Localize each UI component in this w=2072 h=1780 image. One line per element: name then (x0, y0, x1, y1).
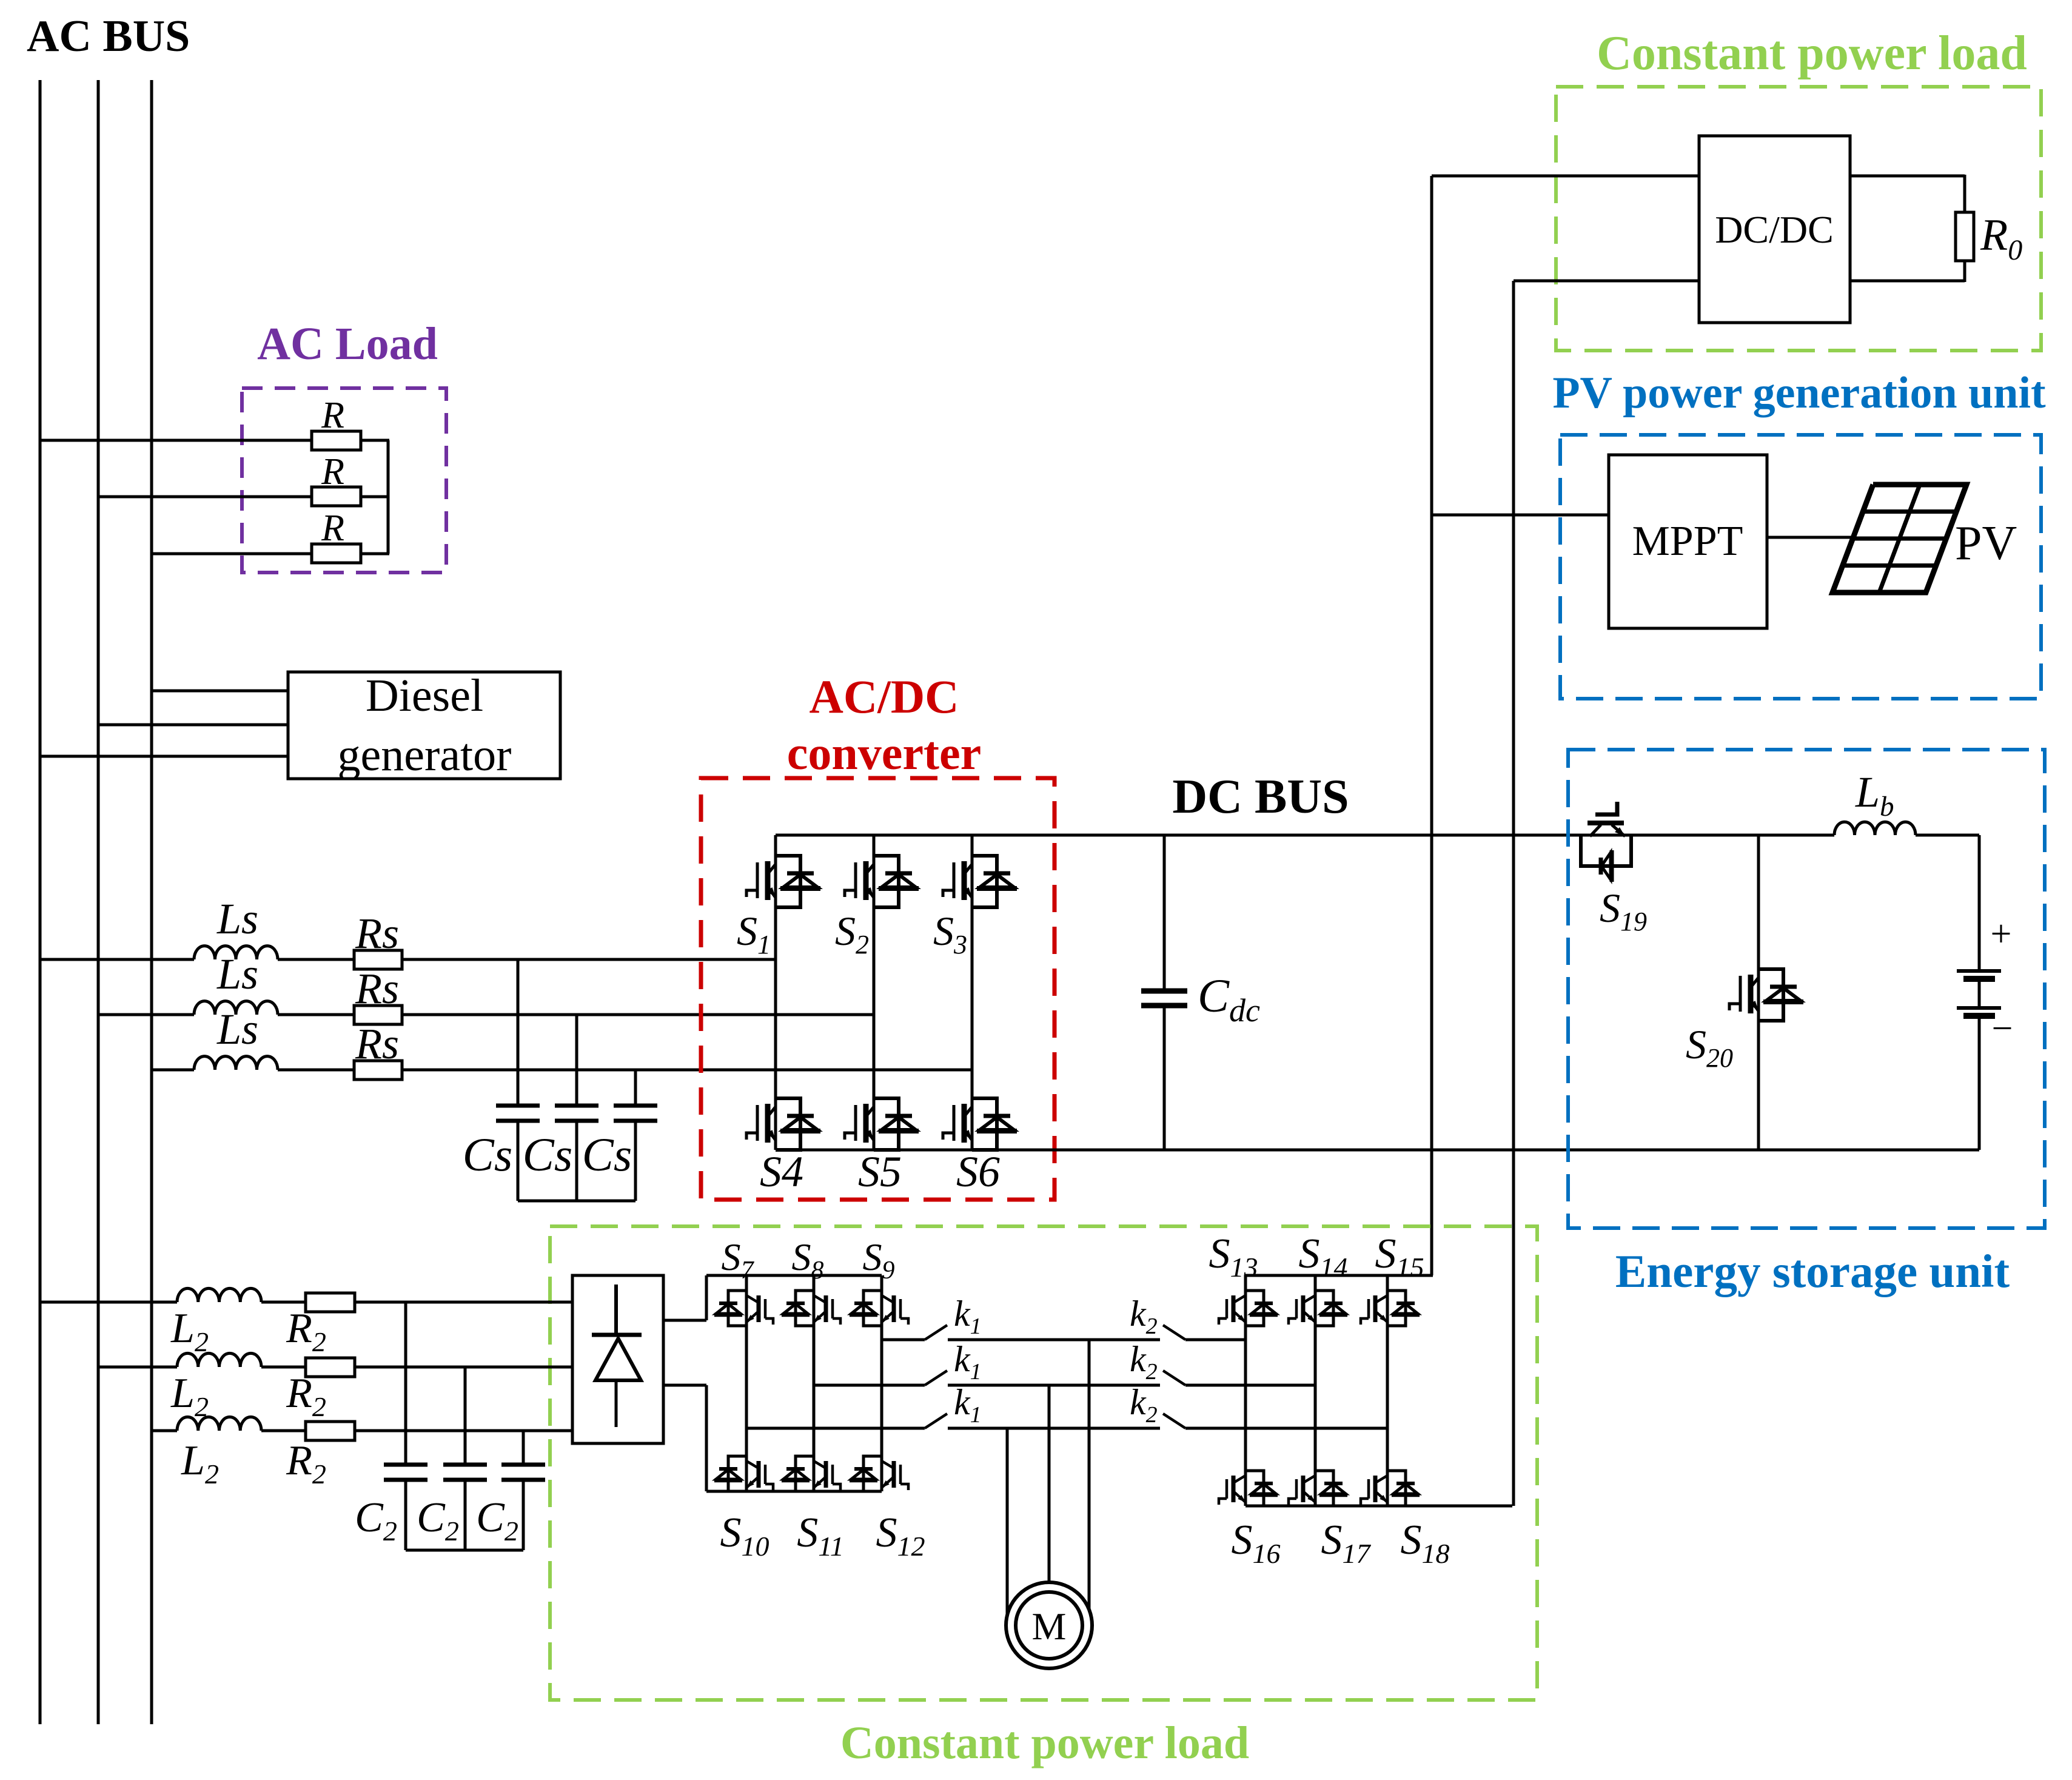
label L2 row2 (170, 1370, 209, 1422)
wire phase row 3 left (152, 1069, 194, 1072)
wire phase row 1 mid (278, 958, 354, 961)
switch k2 blade 3 (1163, 1414, 1185, 1428)
transistor S12 (850, 1456, 908, 1491)
capacitor Cs 3 (614, 1106, 657, 1121)
wire phase row 2 left (98, 1013, 194, 1016)
inductor Lb (1834, 822, 1916, 835)
resistor R2 (row 3) (306, 1422, 355, 1440)
svg-text:AC/DC: AC/DC (810, 670, 959, 723)
wire phase row 3 right (402, 1069, 972, 1072)
label R2 row2 (286, 1370, 326, 1422)
svg-text:PV power generation unit: PV power generation unit (1552, 368, 2046, 418)
label Cdc (1198, 969, 1260, 1029)
svg-text:Rs: Rs (355, 909, 399, 958)
wire AC bus line 1 (39, 80, 42, 1724)
label S10 (720, 1510, 769, 1562)
wire AC load phase 1 right (361, 439, 389, 442)
wire motor phase 3 left (746, 1427, 925, 1430)
transistor S17 (1289, 1471, 1347, 1506)
transistor S1 (746, 856, 820, 907)
transistor S16 (1219, 1471, 1278, 1506)
label k2 row1 (1130, 1294, 1158, 1339)
wire DC bus top rail right (1916, 834, 1979, 837)
label Lb (1855, 768, 1894, 822)
svg-text:converter: converter (787, 727, 981, 779)
inductor L2 (row 2) (177, 1353, 261, 1367)
svg-text:M: M (1032, 1605, 1067, 1648)
wire motor phase 1 left (882, 1338, 925, 1342)
wire Cs bottom 2 (575, 1123, 578, 1201)
wire load row 1 left (40, 1301, 177, 1304)
label AC BUS (27, 12, 190, 61)
label AC/DC (810, 670, 959, 723)
label PV power generation unit (1552, 368, 2046, 418)
battery (1957, 971, 2001, 1016)
wire load row 1 mid (261, 1301, 306, 1304)
wire right inverter leg 3 (1386, 1275, 1389, 1506)
svg-text:generator: generator (338, 730, 512, 781)
label battery + (1991, 913, 2012, 955)
wire C2 bottom 2 (464, 1482, 467, 1550)
wire DC/DC input - (1514, 280, 1699, 283)
svg-text:S6: S6 (956, 1147, 1000, 1196)
svg-text:AC Load: AC Load (257, 318, 438, 369)
wire AC load phase 1 (40, 439, 312, 442)
transistor S15 (1361, 1291, 1420, 1326)
label S2 (835, 908, 869, 959)
label k2 row3 (1130, 1382, 1158, 1428)
inductor Ls (row 1) (194, 895, 278, 959)
wire battery bottom (1978, 1016, 1981, 1150)
resistor R2 (row 2) (306, 1358, 355, 1377)
wire left inverter left vert top (705, 1275, 708, 1320)
label S20 (1686, 1021, 1733, 1073)
transistor S10 (714, 1456, 773, 1491)
wire DC/DC input + (1432, 175, 1699, 178)
wire AC load phase 2 right (361, 495, 389, 499)
transistor S11 (782, 1456, 840, 1491)
wire motor phase 2 right (1185, 1384, 1315, 1387)
label S5 (858, 1147, 902, 1196)
svg-text:Energy storage unit: Energy storage unit (1615, 1245, 2010, 1297)
label S14 (1299, 1231, 1348, 1283)
wire AC load phase 3 right (361, 552, 389, 556)
capacitor C2 1 (384, 1465, 427, 1480)
label S8 (792, 1235, 824, 1285)
label k1 row1 (954, 1294, 982, 1339)
wire motor lead 3 (1006, 1428, 1009, 1615)
svg-text:Rs: Rs (355, 1019, 399, 1068)
label AC Load (257, 318, 438, 369)
transistor S6 (943, 1098, 1017, 1150)
wire Cdc bottom (1163, 1006, 1166, 1150)
Constant power load dashed box (top) (1556, 87, 2041, 351)
wire diesel phase a (152, 690, 288, 693)
wire S20 leg (1757, 835, 1760, 1150)
wire Cs bottom 1 (517, 1123, 520, 1201)
capacitor C2 2 (443, 1465, 487, 1480)
transistor S13 (1219, 1291, 1278, 1326)
wire phase row 1 right (402, 958, 776, 961)
svg-text:Ls: Ls (216, 895, 258, 943)
wire left inverter bottom rail (706, 1490, 882, 1493)
label k1 row2 (954, 1339, 982, 1385)
transistor S5 (845, 1098, 919, 1150)
resistor R0 (1956, 212, 1974, 261)
capacitor Cdc (1141, 991, 1187, 1006)
wire load row 3 left (152, 1429, 177, 1432)
label converter (787, 727, 981, 779)
wire C2 stub 1 (404, 1302, 407, 1463)
wire right inverter leg 2 (1314, 1275, 1317, 1506)
wire Cs stub 1 (517, 959, 520, 1104)
wire AC load phase 3 (152, 552, 312, 556)
svg-text:R: R (321, 395, 344, 436)
switch k1 blade 3 (925, 1414, 947, 1428)
svg-text:Diesel: Diesel (366, 670, 483, 721)
wire phase row 3 mid (278, 1069, 354, 1072)
label Energy storage unit (1615, 1245, 2010, 1297)
wire AC load right vertical (387, 440, 390, 554)
wire diesel phase c (40, 755, 288, 758)
capacitor Cs 1 (496, 1106, 540, 1121)
wire right inverter top rail (1246, 1274, 1433, 1277)
transistor S7 (714, 1291, 773, 1326)
AC Load dashed box (242, 388, 446, 573)
wire R0 top (1963, 175, 1966, 212)
wire battery top (1978, 835, 1981, 971)
svg-text:Ls: Ls (216, 950, 258, 998)
wire DC bus bottom rail (776, 1149, 1979, 1152)
svg-text:Cs: Cs (582, 1128, 632, 1181)
wire load row 1 right (355, 1301, 572, 1304)
wire right inverter bottom rail (1246, 1505, 1512, 1508)
wire motor phase 3 right (1185, 1427, 1387, 1430)
label S1 (737, 908, 771, 959)
transistor S9 (850, 1291, 908, 1326)
wire rectifier out + (663, 1319, 706, 1322)
svg-text:Constant power load: Constant power load (840, 1718, 1249, 1768)
DC/DC converter box (1699, 136, 1850, 323)
resistor R (phase 2) (312, 451, 361, 506)
capacitor C2 3 (501, 1465, 545, 1480)
svg-text:AC BUS: AC BUS (27, 12, 190, 61)
label S3 (933, 908, 967, 959)
wire motor phase 1 mid (948, 1338, 1160, 1342)
svg-text:R: R (321, 508, 344, 549)
transistor S3 (943, 856, 1017, 907)
transistor S18 (1361, 1471, 1420, 1506)
PV panel (1832, 485, 1966, 593)
resistor R (phase 3) (312, 508, 361, 563)
transistor S4 (746, 1098, 820, 1150)
wire DC bus top rail (776, 834, 1834, 837)
wire load row 3 right (355, 1429, 572, 1432)
switch k2 blade 1 (1163, 1325, 1185, 1340)
label R2 row1 (286, 1305, 326, 1357)
wire C2 bottom 1 (404, 1482, 407, 1550)
diode rectifier (572, 1275, 663, 1443)
label S12 (876, 1510, 925, 1562)
label R0 (1980, 210, 2022, 266)
label S18 (1401, 1517, 1450, 1569)
wire MPPT to PV (1767, 536, 1851, 539)
svg-text:−: − (1992, 1008, 2013, 1049)
label Constant power load (top) (1597, 27, 2027, 80)
svg-text:DC BUS: DC BUS (1172, 770, 1349, 824)
wire left inverter leg 2 (813, 1275, 816, 1491)
wire C2 stub 3 (522, 1431, 525, 1463)
wire DC negative feeder (1512, 281, 1515, 1506)
svg-text:+: + (1991, 913, 2012, 955)
wire load row 2 right (355, 1366, 572, 1369)
svg-text:Constant power load: Constant power load (1597, 27, 2027, 80)
wire DC/DC out bottom (1850, 280, 1965, 283)
Energy storage dashed box (1568, 750, 2045, 1228)
resistor R2 (row 1) (306, 1293, 355, 1312)
resistor Rs (row 1) (354, 909, 402, 969)
label S17 (1321, 1517, 1372, 1569)
diesel generator box (288, 670, 560, 781)
transistor S8 (782, 1291, 840, 1326)
label S11 (797, 1510, 844, 1562)
label battery - (1992, 1008, 2013, 1049)
wire load row 2 left (98, 1366, 177, 1369)
resistor Rs (row 3) (354, 1019, 402, 1080)
transistor S20 (1729, 969, 1803, 1021)
wire AC bus line 2 (97, 80, 100, 1724)
AC/DC converter dashed box (701, 778, 1054, 1200)
wire left inverter top rail (706, 1274, 882, 1277)
wire motor phase 3 mid (948, 1427, 1160, 1430)
label S13 (1209, 1231, 1258, 1283)
wire MPPT input (1432, 514, 1609, 517)
wire load row 2 mid (261, 1366, 306, 1369)
inductor L2 (row 1) (177, 1288, 261, 1302)
wire motor lead 2 (1048, 1385, 1051, 1583)
wire C2 common bottom (406, 1549, 523, 1552)
wire left inverter left vert bottom (705, 1385, 708, 1491)
transistor S14 (1289, 1291, 1347, 1326)
inductor Ls (row 3) (194, 1005, 278, 1070)
wire DC positive feeder (1430, 176, 1433, 1275)
wire converter leg 1 (774, 835, 777, 1150)
svg-text:R: R (321, 451, 344, 492)
motor M (1006, 1582, 1092, 1668)
wire motor phase 1 right (1185, 1338, 1246, 1342)
label PV (1955, 517, 2017, 570)
label k1 row3 (954, 1382, 982, 1428)
wire right inverter leg 1 (1244, 1275, 1247, 1506)
svg-text:Cs: Cs (463, 1128, 512, 1181)
svg-text:S4: S4 (760, 1147, 803, 1196)
wire Cdc top (1163, 835, 1166, 991)
label S4 (760, 1147, 803, 1196)
label S15 (1375, 1231, 1424, 1283)
wire motor phase 2 left (814, 1384, 925, 1387)
label S16 (1232, 1517, 1281, 1569)
svg-text:DC/DC: DC/DC (1715, 208, 1834, 251)
label Cs 1 (463, 1128, 512, 1181)
wire left inverter leg 1 (745, 1275, 748, 1491)
wire phase row 2 mid (278, 1013, 354, 1016)
wire Cs bottom 3 (634, 1123, 637, 1201)
wire converter leg 2 (873, 835, 876, 1150)
MPPT box (1609, 455, 1767, 628)
wire C2 bottom 3 (522, 1482, 525, 1550)
Constant power load dashed box (bottom) (550, 1226, 1537, 1700)
transistor S2 (845, 856, 919, 907)
wire rectifier out - (663, 1384, 706, 1387)
label DC BUS (1172, 770, 1349, 824)
svg-text:Rs: Rs (355, 964, 399, 1013)
label Constant power load (bottom) (840, 1718, 1249, 1768)
wire Cs stub 3 (634, 1070, 637, 1104)
label k2 row2 (1130, 1339, 1158, 1385)
switch k2 blade 2 (1163, 1371, 1185, 1385)
wire DC/DC out top (1850, 175, 1965, 178)
transistor S19 (1581, 802, 1631, 882)
wire phase row 1 left (40, 958, 194, 961)
wire Cs common bottom (518, 1200, 635, 1203)
resistor R (phase 1) (312, 395, 361, 450)
svg-text:Ls: Ls (216, 1005, 258, 1053)
svg-text:S5: S5 (858, 1147, 902, 1196)
wire left inverter leg 3 (880, 1275, 883, 1491)
label S9 (863, 1235, 895, 1285)
svg-text:PV: PV (1955, 517, 2017, 570)
label Cs 3 (582, 1128, 632, 1181)
resistor Rs (row 2) (354, 964, 402, 1024)
wire AC load phase 2 (98, 495, 312, 499)
label C2 2 (417, 1494, 459, 1547)
label Cs 2 (523, 1128, 572, 1181)
label C2 3 (476, 1494, 518, 1547)
label C2 1 (355, 1494, 397, 1547)
wire load row 3 mid (261, 1429, 306, 1432)
wire C2 stub 2 (464, 1367, 467, 1463)
inductor L2 (row 3) (177, 1417, 261, 1431)
switch k1 blade 2 (925, 1371, 947, 1385)
wire motor lead 1 (1088, 1340, 1091, 1610)
svg-text:Cs: Cs (523, 1128, 572, 1181)
label L2 row3 (181, 1437, 219, 1489)
label S6 (956, 1147, 1000, 1196)
wire diesel phase b (98, 724, 288, 727)
label R2 row3 (286, 1437, 326, 1489)
svg-text:MPPT: MPPT (1632, 518, 1743, 565)
capacitor Cs 2 (555, 1106, 598, 1121)
label L2 row1 (170, 1305, 209, 1357)
wire phase row 2 right (402, 1013, 874, 1016)
label S19 (1600, 885, 1647, 936)
wire AC bus line 3 (150, 80, 153, 1724)
label S7 (722, 1235, 755, 1285)
wire Cs stub 2 (575, 1015, 578, 1104)
inductor Ls (row 2) (194, 950, 278, 1015)
wire converter leg 3 (971, 835, 974, 1150)
wire motor phase 2 mid (948, 1384, 1160, 1387)
wire R0 bottom (1963, 261, 1966, 282)
PV unit dashed box (1560, 435, 2041, 699)
switch k1 blade 1 (925, 1325, 947, 1340)
